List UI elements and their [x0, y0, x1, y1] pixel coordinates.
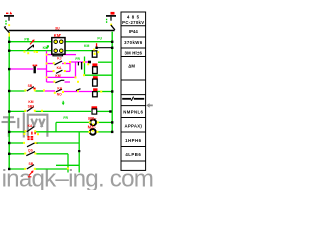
- svg-text:FR: FR: [63, 116, 68, 120]
- svg-text:SB: SB: [28, 84, 33, 88]
- svg-text:3M Hl±6: 3M Hl±6: [124, 50, 142, 55]
- svg-text:1HPH6: 1HPH6: [125, 138, 141, 143]
- svg-text:KA: KA: [28, 124, 33, 128]
- svg-text:M3~: M3~: [88, 116, 97, 121]
- svg-text:NO: NO: [57, 93, 62, 97]
- svg-text:ΔM: ΔM: [128, 63, 135, 68]
- svg-text:4LPB6: 4LPB6: [125, 152, 141, 157]
- svg-text:SB: SB: [29, 162, 34, 166]
- svg-text:370kW6: 370kW6: [124, 40, 143, 45]
- svg-text:3U: 3U: [55, 26, 60, 30]
- svg-text:PB: PB: [24, 38, 29, 42]
- svg-text:FU: FU: [97, 36, 102, 40]
- svg-text:KM': KM': [55, 74, 61, 78]
- svg-text:NMPNL6: NMPNL6: [123, 110, 143, 115]
- svg-text:M3~: M3~: [88, 125, 97, 130]
- svg-text:KA: KA: [57, 86, 62, 90]
- svg-text:QS: QS: [28, 149, 34, 153]
- svg-text:KA: KA: [57, 66, 62, 70]
- svg-text:PC-270kV: PC-270kV: [122, 20, 144, 25]
- svg-text:KM: KM: [84, 44, 89, 48]
- svg-text:SB2: SB2: [28, 104, 35, 108]
- svg-text:FR: FR: [75, 57, 80, 61]
- svg-text:IP44: IP44: [129, 29, 138, 34]
- svg-text:APPAX): APPAX): [124, 124, 142, 129]
- svg-text:KJ: KJ: [57, 57, 61, 61]
- svg-text:KM': KM': [54, 33, 62, 38]
